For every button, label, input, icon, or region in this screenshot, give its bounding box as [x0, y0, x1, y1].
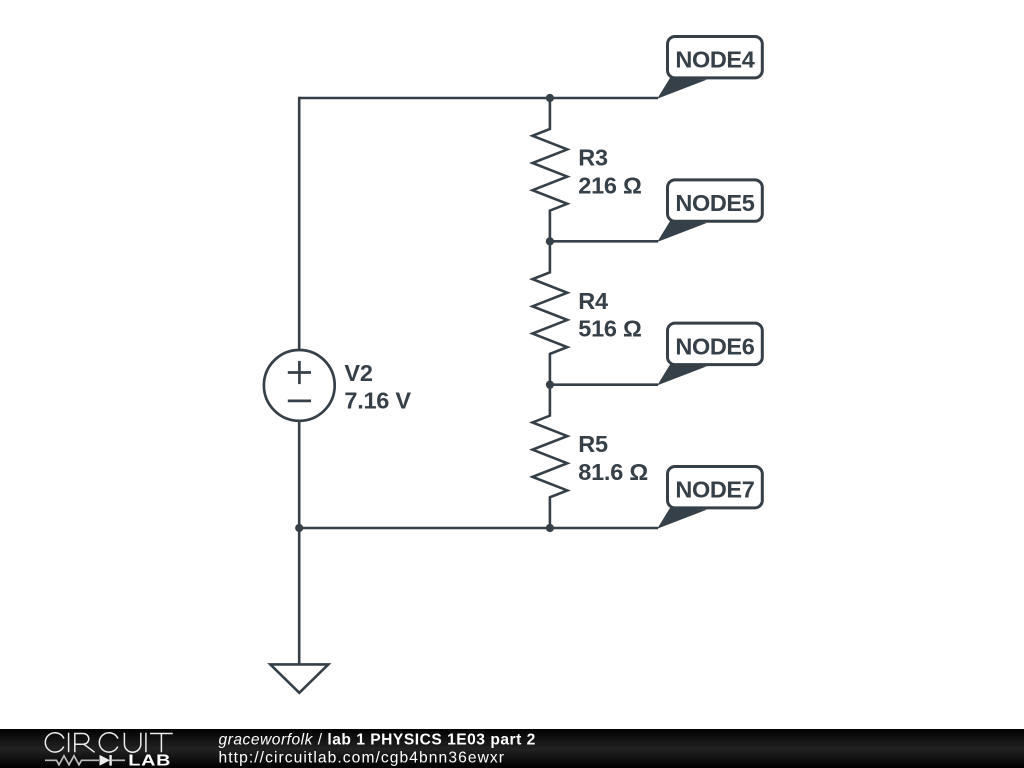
svg-text:V2: V2 [344, 360, 372, 386]
node label NODE6 [657, 323, 762, 385]
junction node A (top of resistor chain) [546, 94, 554, 102]
svg-text:NODE5: NODE5 [675, 190, 754, 216]
junction node B (between R3 and R4) [546, 237, 554, 245]
svg-text:7.16 V: 7.16 V [344, 388, 411, 414]
svg-text:R4: R4 [578, 288, 608, 314]
wire: NODE5 horizontal [550, 240, 658, 243]
wire: NODE6 horizontal [550, 383, 658, 386]
svg-text:516 Ω: 516 Ω [578, 316, 641, 342]
footer url text [219, 750, 506, 767]
label R3 216 &#937; [578, 144, 641, 198]
label R4 516 &#937; [578, 288, 641, 342]
svg-text:R5: R5 [578, 431, 608, 457]
junction node C (between R4 and R5) [546, 381, 554, 389]
junction node D (bottom of resistor chain) [546, 524, 554, 532]
node label NODE5 [657, 180, 762, 242]
resistor R5 [533, 385, 568, 528]
node label NODE7 [657, 467, 762, 529]
wire: top horizontal NODE4 net [299, 97, 658, 100]
CircuitLab logo LAB [128, 751, 171, 768]
label R5 81.6 &#937; [578, 431, 648, 485]
svg-text:NODE7: NODE7 [675, 477, 754, 503]
wire: bottom horizontal NODE7 net [299, 527, 658, 530]
svg-text:81.6 Ω: 81.6 Ω [578, 459, 648, 485]
svg-text:R3: R3 [578, 144, 608, 170]
svg-text:216 Ω: 216 Ω [578, 172, 641, 198]
wire: left vertical from top corner to V2 top [298, 97, 301, 351]
svg-text:graceworfolk / lab 1 PHYSICS 1: graceworfolk / lab 1 PHYSICS 1E03 part 2 [219, 731, 536, 748]
label V2 7.16 V [344, 360, 411, 414]
node label NODE4 [657, 37, 762, 99]
CircuitLab logo resistor-diode glyph [45, 755, 125, 766]
svg-text:NODE4: NODE4 [675, 47, 754, 73]
svg-text:LAB: LAB [128, 751, 171, 768]
voltage source V2 [264, 350, 335, 421]
wire: bottom rail down to ground [298, 528, 301, 664]
resistor R4 [533, 241, 568, 384]
footer title text [219, 731, 536, 748]
footer black bar [0, 729, 1024, 768]
junction ground tee [295, 524, 303, 532]
svg-text:http://circuitlab.com/cgb4bnn3: http://circuitlab.com/cgb4bnn36ewxr [219, 750, 506, 767]
wire: V2 bottom to bottom rail [298, 421, 301, 528]
CircuitLab logo CIRCUIT (drawn letters) [45, 733, 173, 753]
resistor R3 [533, 98, 568, 241]
ground [270, 664, 328, 692]
svg-text:NODE6: NODE6 [675, 333, 754, 359]
